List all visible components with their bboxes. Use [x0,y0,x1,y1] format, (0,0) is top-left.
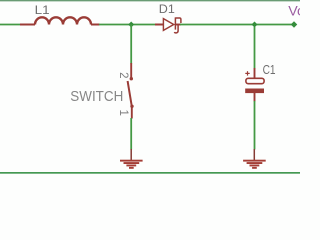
wire C1 to ground [254,101,256,150]
wire from left edge to L1 [0,24,21,26]
svg-text:C1: C1 [263,62,276,77]
diode D1 [155,17,181,33]
wire switch pin 1 to ground [130,118,132,150]
ground below C1 [243,149,266,169]
wire top border rail [0,0,300,1]
ground below switch [120,149,143,169]
wire node A to switch pin 2 [130,25,132,64]
svg-text:L1: L1 [35,3,50,17]
inductor L1 [20,17,100,24]
svg-text:1: 1 [117,109,129,115]
node B junction [252,22,258,28]
svg-text:Vout: Vout [288,3,300,19]
net end diamond Vout [291,21,298,28]
svg-text:SWITCH: SWITCH [70,89,123,105]
capacitor C1 [245,68,264,102]
switch S1 [128,63,134,119]
wire D1 to node B [180,24,292,26]
wire node B to C1 [254,27,256,69]
polarity plus sign of C1 [245,71,249,75]
wire L1 to node A [99,24,156,26]
svg-text:D1: D1 [159,2,175,16]
svg-text:2: 2 [117,72,129,78]
node A junction [128,22,134,28]
wire bottom rail [0,172,300,174]
